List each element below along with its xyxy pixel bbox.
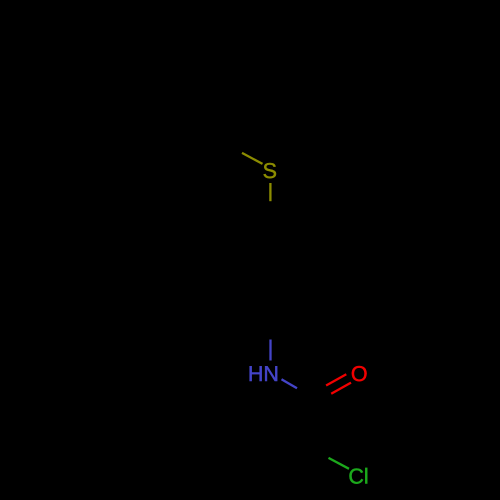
svg-text:O: O — [351, 362, 368, 386]
svg-text:S: S — [263, 159, 277, 183]
wire CH2-Cl half-bond (green) — [329, 458, 350, 469]
wire S-CH3 half-bond (olive) — [242, 153, 263, 164]
svg-text:HN: HN — [248, 362, 279, 386]
wire C=O double bond lower line (red) — [331, 383, 351, 394]
wire S-ring half-bond (olive, vertical) — [269, 183, 271, 201]
wire ring-N half-bond (blue, vertical) — [269, 340, 271, 361]
wire C=O double bond upper line (red) — [326, 374, 346, 385]
svg-text:Cl: Cl — [348, 464, 368, 488]
wire N-C(=O) half-bond (blue, diagonal) — [282, 379, 298, 388]
